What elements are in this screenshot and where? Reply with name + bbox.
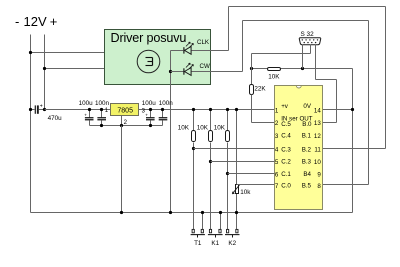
svg-text:+: +	[145, 112, 148, 117]
wire pin14 0V	[323, 109, 353, 111]
resistor R R3 10K	[227, 110, 229, 131]
svg-text:9: 9	[317, 171, 321, 178]
wire trimmer to IC pin7	[237, 184, 275, 186]
LED CLK	[183, 47, 185, 53]
wire R2 to IC	[209, 160, 212, 163]
svg-text:14: 14	[314, 108, 321, 115]
wire to driver upper input	[31, 52, 105, 54]
IC shift register	[275, 86, 323, 210]
svg-text:1: 1	[275, 108, 279, 115]
wire CLK left	[171, 50, 184, 52]
motor circle M	[137, 50, 160, 73]
capacitor C 100n right	[162, 110, 164, 118]
svg-text:+: +	[50, 14, 58, 29]
wire 0V vertical right	[352, 69, 354, 213]
svg-text:12: 12	[314, 133, 321, 140]
LED CW	[183, 68, 185, 74]
wire minus rail (left vertical)	[30, 35, 32, 213]
svg-text:B.2: B.2	[302, 146, 312, 153]
wire R1 to IC	[192, 147, 195, 150]
svg-text:C.5: C.5	[281, 121, 291, 128]
svg-text:+v: +v	[281, 103, 289, 110]
wire internal cathode/ground vertical	[170, 51, 172, 213]
svg-text:11: 11	[314, 147, 321, 154]
svg-text:B.5: B.5	[302, 183, 312, 190]
wire CLK right to corner	[192, 50, 229, 52]
wire 10K net	[252, 68, 268, 70]
wire ground rail bottom	[31, 212, 353, 214]
terminal K1	[220, 213, 222, 230]
svg-text:-: -	[15, 14, 19, 29]
svg-text:22K: 22K	[254, 86, 266, 93]
regulator U 7805	[111, 104, 139, 116]
wire connector pin1 down	[302, 45, 304, 69]
svg-text:CLK: CLK	[197, 39, 210, 46]
resistor R R1 10K	[193, 110, 195, 131]
svg-text:C.3: C.3	[281, 146, 291, 153]
svg-text:6: 6	[275, 171, 279, 178]
svg-text:8: 8	[317, 183, 321, 190]
wire CLK rail (outer top loop)	[228, 7, 230, 51]
wire pin8 B.5	[323, 184, 369, 186]
wire CW right to corner	[192, 71, 243, 73]
svg-text:B.0: B.0	[302, 121, 312, 128]
svg-text:10: 10	[314, 159, 321, 166]
node minus/driver junction	[29, 51, 32, 54]
svg-text:0V: 0V	[303, 103, 311, 110]
svg-text:7805: 7805	[117, 107, 133, 114]
svg-text:K1: K1	[211, 240, 219, 247]
svg-text:K2: K2	[228, 240, 236, 247]
driver box Driver posuvu	[105, 30, 211, 85]
svg-text:10K: 10K	[268, 74, 280, 81]
svg-text:4: 4	[275, 147, 279, 154]
wire 22K to IC pin2	[252, 122, 275, 124]
wire to driver lower input	[45, 68, 105, 70]
svg-text:10K: 10K	[178, 125, 190, 132]
wire connector pin2 to 22K node	[310, 45, 312, 54]
svg-text:470u: 470u	[48, 115, 63, 122]
svg-text:100n: 100n	[95, 100, 110, 107]
wire connector pin3 to IC pin13	[315, 45, 317, 80]
wire +5V rail 7805 to IC pin1	[139, 109, 275, 111]
wire +12V rail to 7805	[45, 109, 111, 111]
svg-text:B4: B4	[303, 171, 311, 178]
node CW cathode junction	[169, 70, 172, 73]
svg-text:12V: 12V	[24, 14, 47, 29]
resistor R 22K vertical	[251, 69, 253, 85]
svg-text:Driver posuvu: Driver posuvu	[111, 31, 187, 45]
svg-text:+: +	[40, 104, 43, 110]
svg-text:+: +	[84, 112, 87, 117]
svg-text:B.3: B.3	[302, 159, 312, 166]
resistor R 10K horizontal	[268, 68, 281, 71]
svg-text:100u: 100u	[79, 100, 94, 107]
resistor R R2 10K	[210, 110, 212, 131]
wire pin11 B.2	[323, 148, 386, 150]
wire plus vertical	[44, 35, 46, 110]
capacitor C 100u right	[150, 110, 152, 118]
svg-text:S 32: S 32	[301, 31, 315, 38]
svg-text:100u: 100u	[142, 100, 157, 107]
svg-text:C.2: C.2	[281, 159, 291, 166]
svg-text:T1: T1	[194, 240, 202, 247]
svg-text:C.4: C.4	[281, 133, 291, 140]
wire ground drop from 7805	[121, 126, 123, 213]
capacitor C 470u	[31, 109, 35, 111]
svg-text:100n: 100n	[159, 100, 174, 107]
svg-text:10K: 10K	[214, 125, 226, 132]
svg-text:13: 13	[314, 120, 321, 127]
svg-text:5: 5	[275, 159, 279, 166]
svg-text:3: 3	[275, 133, 279, 140]
trimmer P 10k	[236, 110, 238, 230]
svg-text:C.1: C.1	[281, 171, 291, 178]
terminal T1	[202, 213, 204, 230]
svg-text:2: 2	[275, 120, 279, 127]
terminal K2	[236, 213, 238, 230]
svg-text:7: 7	[275, 183, 279, 190]
wire 7805 pin2 / cap ground bus	[121, 116, 123, 126]
svg-text:10k: 10k	[240, 189, 251, 196]
capacitor C 100u left	[89, 110, 91, 118]
svg-text:CW: CW	[200, 63, 210, 70]
svg-text:B.1: B.1	[302, 133, 312, 140]
node plus/driver junction	[43, 67, 46, 70]
svg-text:C.0: C.0	[281, 183, 291, 190]
wire R3 to IC	[226, 172, 229, 175]
wire CW rail (inner top loop)	[242, 21, 244, 72]
capacitor C 100n left	[101, 110, 103, 118]
svg-text:10K: 10K	[197, 125, 209, 132]
